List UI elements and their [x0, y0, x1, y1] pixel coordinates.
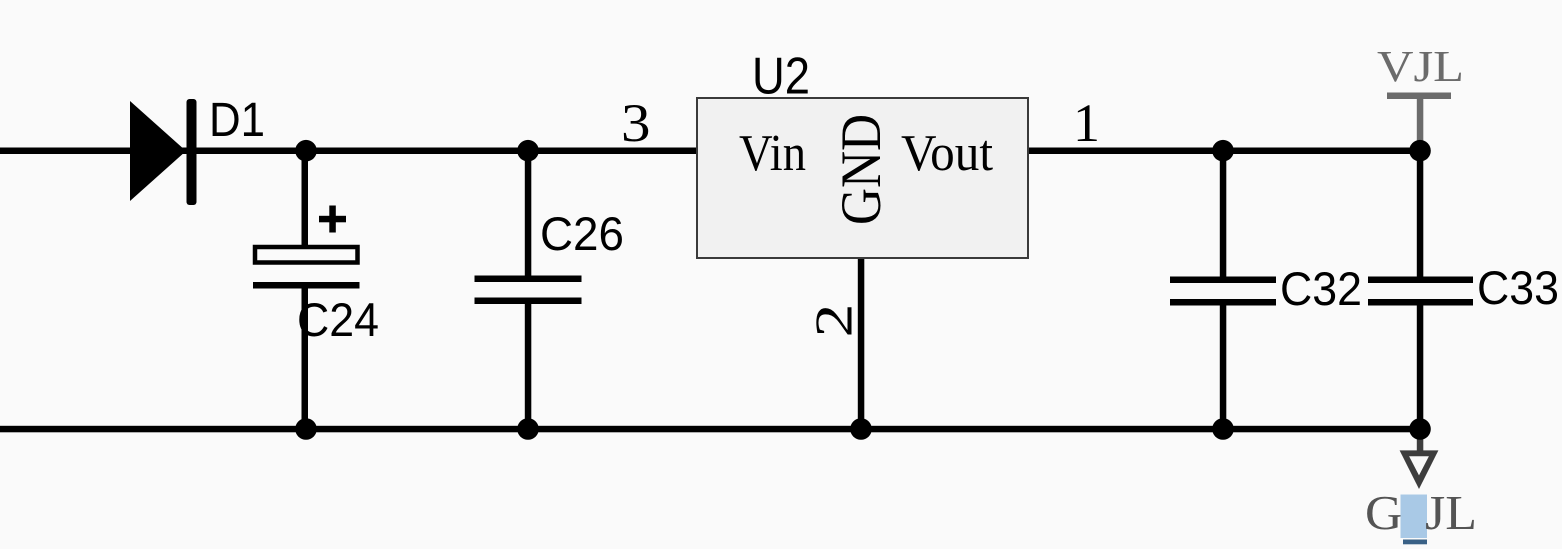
- wire top rail left: [0, 148, 696, 155]
- svg-text:G: G: [1365, 485, 1403, 540]
- node junction bottom C33 ground: [1409, 418, 1431, 440]
- wire: [1417, 150, 1424, 277]
- node junction top C32: [1212, 140, 1234, 162]
- bottom plate: [1170, 299, 1276, 306]
- svg-text:D1: D1: [209, 94, 265, 147]
- capacitor C24 (polarized): [253, 150, 379, 429]
- capacitor C26: [475, 150, 625, 429]
- node junction bottom C24: [295, 418, 317, 440]
- top plate: [1170, 277, 1276, 284]
- svg-text:U2: U2: [752, 48, 810, 106]
- power VJL: [1377, 42, 1464, 145]
- top plate: [1368, 277, 1473, 284]
- plus sign: [319, 216, 346, 223]
- wire: [525, 304, 532, 429]
- wire: [1417, 306, 1424, 430]
- wire: [302, 150, 309, 245]
- wire: [1220, 306, 1227, 430]
- svg-text:C26: C26: [540, 207, 624, 260]
- svg-text:3: 3: [621, 93, 651, 153]
- svg-text:Vin: Vin: [739, 125, 806, 182]
- bottom plate: [253, 282, 360, 289]
- ground GNDJL: [1365, 437, 1477, 544]
- svg-text:VJL: VJL: [1377, 42, 1464, 91]
- svg-text:1: 1: [1073, 93, 1100, 153]
- bottom plate: [1368, 299, 1473, 306]
- svg-text:2: 2: [806, 304, 864, 338]
- op-amp U2 regulator box: [621, 48, 1100, 430]
- capacitor C33: [1368, 150, 1559, 429]
- capacitor C32: [1170, 150, 1362, 429]
- svg-text:JL: JL: [1425, 485, 1477, 540]
- wire bottom rail: [0, 426, 1420, 433]
- node junction top C26: [517, 140, 539, 162]
- wire: [302, 289, 309, 430]
- node junction bottom C32: [1212, 418, 1234, 440]
- wire: [1220, 150, 1227, 277]
- svg-text:C33: C33: [1477, 261, 1559, 314]
- top plate: [475, 276, 582, 283]
- svg-text:C24: C24: [297, 293, 379, 346]
- wire: [525, 150, 532, 276]
- svg-text:C32: C32: [1280, 262, 1362, 315]
- svg-text:Vout: Vout: [901, 125, 994, 182]
- node junction top C33 VJL: [1409, 140, 1431, 162]
- node junction top C24: [295, 140, 317, 162]
- wire top rail right: [1029, 148, 1420, 155]
- svg-text:GND: GND: [830, 114, 893, 225]
- node junction bottom C26: [517, 418, 539, 440]
- wire GND pin 2: [858, 259, 865, 429]
- bottom plate: [475, 298, 582, 305]
- node junction bottom U2 GND: [850, 418, 872, 440]
- diode D1: [130, 94, 265, 205]
- top plate: [255, 247, 358, 263]
